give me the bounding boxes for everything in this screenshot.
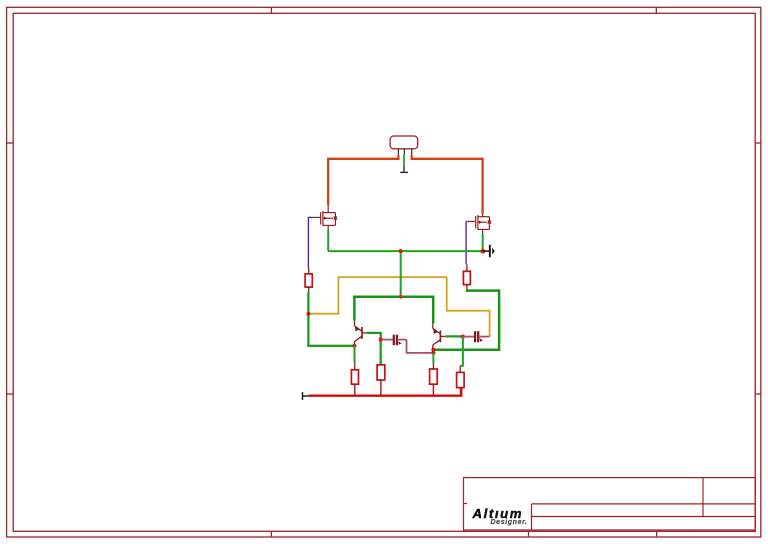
capacitor C1 [381, 335, 407, 346]
port VSS bar left [303, 392, 309, 400]
resistor R4 bottom2 [377, 365, 385, 396]
wire green source bus horizontal [328, 250, 483, 252]
resistor R1 left top [305, 268, 312, 293]
wire pink C1 to Q2 [407, 340, 434, 353]
wire green right loop [433, 289, 499, 349]
wire green Q2 base branch [445, 335, 463, 337]
ground GND under crystal [400, 166, 408, 173]
wire green R5 drop [432, 353, 434, 364]
port OUT arrow right [483, 245, 495, 257]
wire orange right VCC branch [412, 155, 483, 214]
wire green R6 branch [460, 337, 463, 366]
junction node Q1 collector [352, 344, 356, 348]
wire blue right gate [465, 221, 467, 264]
junction node right source [481, 249, 486, 254]
wire red VSS rail [308, 388, 461, 396]
capacitor C2 [463, 331, 490, 342]
transistor M2 MOSFET right [466, 214, 491, 234]
wire green left collector branch [308, 292, 354, 346]
resistor R3 bottom1 [351, 362, 358, 396]
resistor R5 bottom3 [430, 364, 438, 396]
Altium Designer logo [472, 506, 528, 526]
wire green center tail down [400, 251, 402, 297]
wire green left MOSFET source [327, 230, 329, 251]
junction node C2 left [461, 335, 465, 339]
wire green R3 drop [354, 346, 356, 363]
wire blue left gate [308, 217, 312, 268]
resistor R2 right top [463, 264, 470, 290]
wire green Q1 base branch [367, 333, 381, 365]
wire crystal mid green [403, 154, 405, 166]
junction node Q2 collector green [431, 348, 435, 352]
wire yellow feedback [308, 277, 489, 337]
crystal Y1 [390, 136, 418, 156]
junction node emitter bus [399, 295, 403, 299]
wire green emitter bus [354, 297, 433, 324]
svg-text:Designer.: Designer. [491, 519, 528, 526]
transistor Q2 BJT right [433, 324, 446, 350]
junction node C1 left [379, 338, 383, 342]
wire green right MOSFET source [482, 234, 484, 252]
junction node source bus [399, 249, 403, 253]
title block [464, 478, 756, 530]
junction node Q2 collector pink [431, 351, 435, 355]
transistor Q1 BJT left [355, 321, 367, 346]
junction node yellow tap [306, 312, 310, 316]
wire orange left VCC branch [328, 155, 398, 205]
resistor R6 bottom4 [457, 366, 465, 396]
transistor M1 MOSFET left [312, 205, 337, 230]
